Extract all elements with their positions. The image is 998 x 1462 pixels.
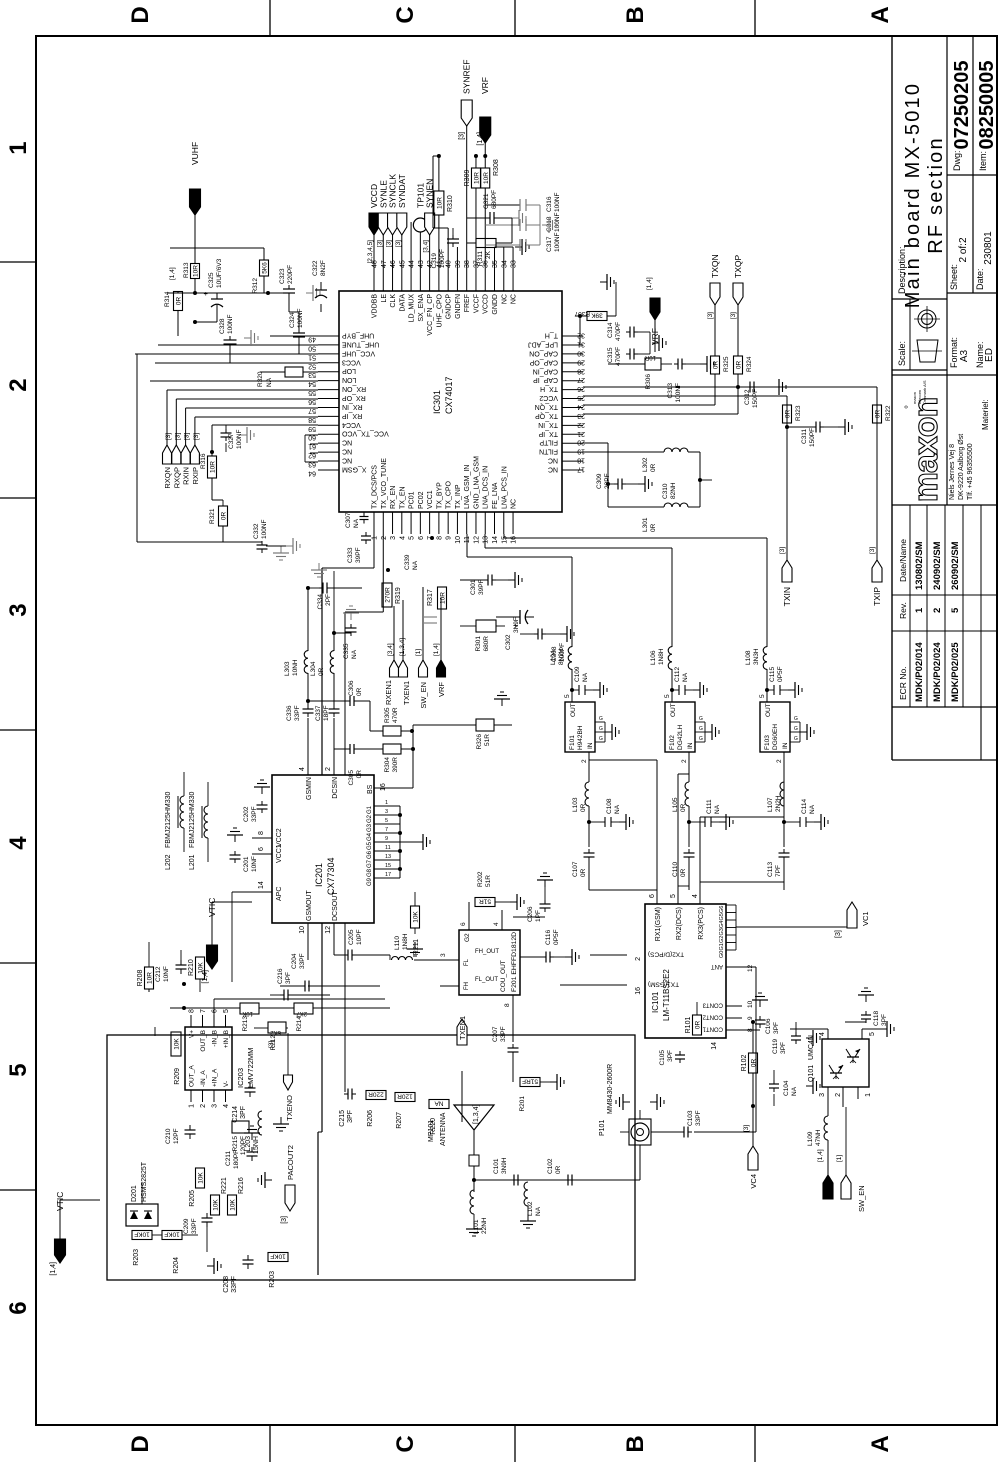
svg-text:CONT2: CONT2 bbox=[702, 1014, 723, 1020]
svg-text:F201 EHFFD1812D: F201 EHFFD1812D bbox=[511, 932, 518, 992]
svg-text:L108: L108 bbox=[745, 650, 752, 665]
svg-text:33: 33 bbox=[511, 260, 518, 268]
svg-text:FE_LNA: FE_LNA bbox=[492, 482, 499, 509]
svg-text:NA: NA bbox=[535, 1206, 542, 1216]
svg-text:C: C bbox=[392, 1435, 419, 1452]
svg-text:NA: NA bbox=[682, 672, 689, 682]
svg-text:TXIP: TXIP bbox=[872, 587, 882, 606]
svg-text:D201: D201 bbox=[131, 1185, 138, 1202]
svg-text:8N2H: 8N2H bbox=[558, 648, 565, 665]
svg-text:260902/SM: 260902/SM bbox=[950, 541, 961, 590]
svg-text:G: G bbox=[599, 716, 603, 722]
svg-text:CAP_IP: CAP_IP bbox=[533, 376, 558, 383]
svg-text:DG42LH: DG42LH bbox=[677, 724, 684, 750]
svg-text:[3,4]: [3,4] bbox=[387, 643, 394, 656]
svg-text:L303: L303 bbox=[284, 661, 291, 676]
svg-text:5: 5 bbox=[670, 894, 677, 898]
svg-text:3PF: 3PF bbox=[773, 1022, 780, 1034]
svg-text:CAP_ON: CAP_ON bbox=[529, 349, 558, 356]
svg-text:G6: G6 bbox=[719, 906, 725, 913]
svg-text:OUT: OUT bbox=[570, 703, 577, 717]
svg-text:NC: NC bbox=[511, 294, 518, 304]
svg-text:TX_INP: TX_INP bbox=[455, 484, 462, 509]
svg-text:D: D bbox=[127, 1435, 154, 1452]
svg-text:4: 4 bbox=[819, 1032, 826, 1036]
svg-text:G5: G5 bbox=[367, 841, 373, 850]
svg-text:C105: C105 bbox=[659, 1050, 666, 1066]
svg-text:VRF: VRF bbox=[437, 682, 446, 697]
svg-text:C112: C112 bbox=[674, 667, 681, 682]
svg-text:UMC4N: UMC4N bbox=[808, 1035, 815, 1060]
svg-text:[3]: [3] bbox=[193, 433, 200, 440]
svg-text:SYNREF: SYNREF bbox=[462, 60, 472, 94]
svg-text:[3]: [3] bbox=[268, 1041, 275, 1048]
svg-text:49: 49 bbox=[308, 336, 316, 343]
svg-text:6: 6 bbox=[418, 536, 425, 540]
svg-text:P101: P101 bbox=[599, 1120, 606, 1136]
svg-text:APC: APC bbox=[276, 887, 283, 901]
svg-text:+IN_B: +IN_B bbox=[223, 1030, 230, 1048]
svg-text:R326: R326 bbox=[476, 734, 483, 750]
svg-text:2: 2 bbox=[581, 759, 588, 763]
svg-text:UHF_BYP: UHF_BYP bbox=[342, 332, 375, 339]
svg-text:16: 16 bbox=[511, 536, 518, 544]
svg-text:CONT3: CONT3 bbox=[702, 1002, 723, 1008]
svg-text:MDK/P02/024: MDK/P02/024 bbox=[932, 642, 943, 702]
svg-text:51R: 51R bbox=[485, 875, 492, 887]
svg-text:0P5F: 0P5F bbox=[777, 666, 784, 682]
svg-text:3N9H: 3N9H bbox=[501, 1157, 508, 1174]
svg-text:20: 20 bbox=[577, 439, 585, 446]
svg-text:MM8430-2600R: MM8430-2600R bbox=[607, 1064, 614, 1114]
svg-text:L107: L107 bbox=[767, 797, 774, 812]
svg-text:LOP: LOP bbox=[342, 367, 356, 374]
svg-text:LNA_GSM_IN: LNA_GSM_IN bbox=[464, 465, 471, 509]
svg-text:GNDD: GNDD bbox=[492, 294, 499, 315]
svg-text:FREF: FREF bbox=[464, 294, 471, 312]
svg-text:VCC3: VCC3 bbox=[342, 358, 361, 365]
svg-text:C202: C202 bbox=[243, 806, 250, 822]
svg-text:G9: G9 bbox=[367, 877, 373, 886]
svg-text:6: 6 bbox=[258, 847, 265, 851]
svg-text:[3]: [3] bbox=[459, 132, 466, 140]
svg-text:GNDFN: GNDFN bbox=[455, 294, 462, 319]
svg-text:33PF: 33PF bbox=[500, 1026, 507, 1042]
svg-text:C339: C339 bbox=[404, 554, 411, 570]
svg-text:IC201: IC201 bbox=[314, 863, 324, 887]
svg-text:MDK/P02/014: MDK/P02/014 bbox=[914, 642, 925, 702]
svg-text:CLK: CLK bbox=[390, 294, 397, 308]
svg-text:OUT: OUT bbox=[670, 703, 677, 717]
svg-text:15: 15 bbox=[385, 863, 391, 869]
svg-text:C301: C301 bbox=[470, 579, 477, 595]
svg-text:2PF: 2PF bbox=[325, 594, 332, 606]
svg-text:0R: 0R bbox=[356, 687, 363, 696]
svg-text:[1,4]: [1,4] bbox=[477, 132, 484, 146]
svg-text:G0: G0 bbox=[719, 951, 725, 958]
svg-text:0R: 0R bbox=[221, 512, 228, 521]
svg-text:[3]: [3] bbox=[707, 312, 714, 319]
svg-text:Q101: Q101 bbox=[808, 1065, 815, 1082]
svg-text:33PF: 33PF bbox=[299, 953, 306, 969]
svg-text:11: 11 bbox=[385, 845, 391, 851]
svg-text:TX_EN: TX_EN bbox=[399, 486, 406, 509]
svg-text:180PF: 180PF bbox=[233, 1150, 240, 1169]
svg-text:L104: L104 bbox=[550, 650, 557, 665]
svg-text:8: 8 bbox=[436, 536, 443, 540]
svg-text:[3]: [3] bbox=[165, 433, 172, 440]
svg-text:C325: C325 bbox=[208, 272, 215, 288]
svg-text:RX_OP: RX_OP bbox=[342, 394, 366, 401]
svg-text:5K6: 5K6 bbox=[262, 262, 269, 274]
svg-text:TX_BYP: TX_BYP bbox=[436, 482, 443, 509]
svg-text:[3]: [3] bbox=[779, 547, 786, 554]
svg-text:C111: C111 bbox=[706, 799, 713, 814]
svg-text:0R: 0R bbox=[318, 667, 325, 676]
svg-text:10K: 10K bbox=[242, 1010, 253, 1016]
svg-text:2: 2 bbox=[835, 1093, 842, 1097]
svg-text:12: 12 bbox=[747, 964, 754, 972]
svg-text:100NF: 100NF bbox=[236, 429, 243, 449]
svg-text:1: 1 bbox=[385, 800, 388, 806]
svg-text:120R: 120R bbox=[397, 1093, 413, 1100]
svg-text:R304: R304 bbox=[384, 757, 391, 773]
svg-text:RXEN1: RXEN1 bbox=[384, 680, 393, 705]
svg-text:TX_IP: TX_IP bbox=[538, 430, 558, 437]
svg-text:COU_OUT: COU_OUT bbox=[500, 960, 507, 992]
svg-text:G: G bbox=[699, 736, 703, 742]
svg-text:L304: L304 bbox=[310, 661, 317, 676]
svg-text:[1]: [1] bbox=[836, 1155, 843, 1162]
svg-text:Scale:: Scale: bbox=[897, 341, 907, 366]
svg-text:39PF: 39PF bbox=[478, 579, 485, 595]
svg-text:C305: C305 bbox=[348, 770, 355, 786]
svg-text:2: 2 bbox=[200, 1104, 207, 1108]
svg-text:maxon: maxon bbox=[907, 398, 945, 503]
svg-text:C314: C314 bbox=[607, 322, 614, 338]
svg-text:3PF: 3PF bbox=[667, 1050, 674, 1062]
svg-text:C204: C204 bbox=[291, 953, 298, 969]
svg-text:0R: 0R bbox=[580, 868, 587, 877]
svg-text:4: 4 bbox=[493, 922, 500, 926]
svg-text:G8: G8 bbox=[367, 868, 373, 877]
svg-text:40: 40 bbox=[446, 260, 453, 268]
svg-text:C116: C116 bbox=[545, 930, 552, 945]
svg-text:5: 5 bbox=[869, 1032, 876, 1036]
svg-text:[3]: [3] bbox=[376, 240, 383, 247]
svg-text:5: 5 bbox=[759, 694, 766, 698]
svg-text:C210: C210 bbox=[165, 1128, 172, 1144]
svg-text:680R: 680R bbox=[483, 636, 490, 652]
svg-text:SYNDAT: SYNDAT bbox=[397, 174, 407, 208]
svg-text:390R: 390R bbox=[392, 757, 399, 773]
svg-text:100PF: 100PF bbox=[439, 249, 446, 268]
svg-text:220R: 220R bbox=[368, 1091, 384, 1098]
svg-text:R319: R319 bbox=[395, 587, 402, 604]
svg-text:Materiel:: Materiel: bbox=[981, 399, 990, 430]
svg-text:UHF_CPO: UHF_CPO bbox=[436, 293, 443, 327]
svg-text:39: 39 bbox=[455, 260, 462, 268]
svg-text:7: 7 bbox=[200, 1009, 207, 1013]
svg-text:C104: C104 bbox=[783, 1080, 790, 1096]
svg-text:2: 2 bbox=[681, 759, 688, 763]
svg-text:C324: C324 bbox=[289, 312, 296, 328]
svg-text:ANT: ANT bbox=[711, 963, 723, 969]
svg-text:0R: 0R bbox=[680, 803, 687, 812]
svg-text:R205: R205 bbox=[189, 1190, 196, 1207]
svg-text:6: 6 bbox=[460, 922, 467, 926]
svg-text:-IN_B: -IN_B bbox=[212, 1030, 219, 1047]
svg-text:RXQN: RXQN bbox=[163, 467, 172, 489]
svg-text:12: 12 bbox=[325, 926, 332, 934]
svg-text:1: 1 bbox=[5, 141, 32, 154]
svg-text:680PF: 680PF bbox=[491, 190, 498, 209]
svg-text:12: 12 bbox=[473, 536, 480, 544]
svg-text:34: 34 bbox=[501, 260, 508, 268]
svg-text:38: 38 bbox=[464, 260, 471, 268]
svg-text:10K: 10K bbox=[230, 1199, 237, 1211]
svg-text:G3: G3 bbox=[719, 928, 725, 935]
svg-text:LPF_ADJ: LPF_ADJ bbox=[528, 340, 558, 347]
svg-text:R102: R102 bbox=[741, 1055, 748, 1072]
svg-text:[3]: [3] bbox=[386, 240, 393, 247]
svg-text:C334: C334 bbox=[317, 594, 324, 610]
svg-text:Format:: Format: bbox=[949, 337, 959, 368]
svg-text:TX_QP: TX_QP bbox=[535, 412, 558, 419]
svg-text:0R: 0R bbox=[736, 361, 743, 370]
svg-text:[3]: [3] bbox=[281, 1216, 288, 1224]
svg-text:C302: C302 bbox=[505, 634, 512, 650]
svg-text:TXEN1: TXEN1 bbox=[458, 1016, 467, 1040]
svg-text:C332: C332 bbox=[253, 523, 260, 539]
svg-text:30: 30 bbox=[577, 349, 585, 356]
svg-text:6K2: 6K2 bbox=[270, 1029, 281, 1035]
svg-text:[3]: [3] bbox=[184, 433, 191, 440]
svg-text:TXQN: TXQN bbox=[710, 254, 720, 278]
svg-text:IN: IN bbox=[687, 742, 694, 749]
svg-text:G2: G2 bbox=[464, 933, 471, 942]
svg-text:0R: 0R bbox=[356, 770, 363, 779]
svg-text:DK-9220 Aalborg Øst: DK-9220 Aalborg Øst bbox=[958, 434, 965, 500]
svg-text:[1,4]: [1,4] bbox=[50, 1262, 57, 1276]
svg-text:VCC_FN_CP: VCC_FN_CP bbox=[427, 294, 434, 336]
svg-text:10NF: 10NF bbox=[163, 966, 170, 982]
svg-text:3PF: 3PF bbox=[780, 1042, 787, 1054]
svg-text:NC: NC bbox=[501, 294, 508, 304]
svg-text:TX_DCS/PCS: TX_DCS/PCS bbox=[372, 465, 379, 509]
svg-text:C206: C206 bbox=[527, 906, 534, 922]
svg-text:L106: L106 bbox=[650, 650, 657, 665]
svg-text:Rev.: Rev. bbox=[898, 602, 908, 619]
svg-text:12PF: 12PF bbox=[173, 1128, 180, 1144]
svg-text:DG60EH: DG60EH bbox=[772, 724, 779, 750]
svg-text:23: 23 bbox=[577, 412, 585, 419]
svg-text:DCSIN: DCSIN bbox=[332, 777, 339, 799]
svg-text:19: 19 bbox=[577, 448, 585, 455]
svg-text:C215: C215 bbox=[339, 1110, 346, 1127]
svg-text:150PF: 150PF bbox=[752, 389, 759, 408]
svg-text:R209: R209 bbox=[174, 1068, 181, 1085]
svg-text:V-: V- bbox=[223, 1081, 230, 1087]
svg-text:100NF: 100NF bbox=[261, 519, 268, 539]
svg-text:10KF: 10KF bbox=[164, 1231, 180, 1238]
svg-text:4: 4 bbox=[5, 836, 32, 850]
svg-text:R203: R203 bbox=[133, 1249, 140, 1266]
svg-text:31: 31 bbox=[577, 340, 585, 347]
svg-text:MDK/P02/025: MDK/P02/025 bbox=[950, 642, 961, 702]
svg-text:10R: 10R bbox=[193, 265, 200, 277]
svg-text:G: G bbox=[599, 736, 603, 742]
svg-text:TXENO: TXENO bbox=[285, 1095, 294, 1121]
svg-text:R313: R313 bbox=[183, 262, 190, 278]
svg-text:RX_IN: RX_IN bbox=[342, 403, 363, 410]
svg-text:NA: NA bbox=[582, 672, 589, 682]
svg-text:R221: R221 bbox=[221, 1177, 228, 1194]
svg-text:R202: R202 bbox=[477, 871, 484, 887]
svg-text:NA: NA bbox=[791, 1086, 798, 1096]
svg-text:C113: C113 bbox=[767, 862, 774, 877]
svg-text:5: 5 bbox=[664, 694, 671, 698]
svg-text:64: 64 bbox=[308, 469, 316, 476]
svg-text:C306: C306 bbox=[348, 680, 355, 696]
svg-text:26: 26 bbox=[577, 385, 585, 392]
svg-text:21: 21 bbox=[577, 430, 585, 437]
svg-text:25: 25 bbox=[577, 394, 585, 401]
svg-text:10R: 10R bbox=[147, 972, 154, 984]
svg-text:7PF: 7PF bbox=[775, 865, 782, 877]
svg-text:22PF: 22PF bbox=[604, 473, 611, 489]
svg-text:2: 2 bbox=[776, 759, 783, 763]
svg-text:G4: G4 bbox=[367, 832, 373, 841]
svg-text:1: 1 bbox=[372, 536, 379, 540]
svg-text:CX77304: CX77304 bbox=[326, 857, 336, 895]
svg-text:TXQP: TXQP bbox=[733, 255, 743, 278]
svg-text:44: 44 bbox=[409, 260, 416, 268]
svg-text:[1,3,4]: [1,3,4] bbox=[473, 1104, 480, 1124]
svg-text:17: 17 bbox=[385, 872, 391, 878]
svg-text:100NF: 100NF bbox=[554, 212, 561, 232]
svg-text:OUT: OUT bbox=[765, 703, 772, 717]
svg-text:F103: F103 bbox=[764, 735, 771, 750]
svg-text:R310: R310 bbox=[447, 195, 454, 212]
svg-text:RX_IP: RX_IP bbox=[342, 412, 363, 419]
svg-text:10R: 10R bbox=[644, 354, 656, 360]
svg-text:G: G bbox=[599, 726, 603, 732]
svg-text:2 of:2: 2 of:2 bbox=[958, 237, 969, 262]
svg-text:10R: 10R bbox=[436, 197, 443, 209]
svg-text:Main board MX-5010: Main board MX-5010 bbox=[902, 82, 924, 308]
svg-text:C108: C108 bbox=[606, 798, 613, 814]
svg-text:10R: 10R bbox=[474, 172, 481, 184]
svg-text:45: 45 bbox=[399, 260, 406, 268]
svg-text:5: 5 bbox=[223, 1009, 230, 1013]
svg-text:1N8H: 1N8H bbox=[402, 933, 409, 950]
svg-text:100NF: 100NF bbox=[554, 192, 561, 212]
svg-text:Date/Name: Date/Name bbox=[898, 539, 908, 582]
svg-text:18PF: 18PF bbox=[323, 705, 330, 721]
svg-text:VCC2: VCC2 bbox=[539, 394, 558, 401]
svg-text:10UF/6V3: 10UF/6V3 bbox=[216, 258, 223, 288]
svg-text:C106: C106 bbox=[765, 1018, 772, 1034]
svg-text:L202: L202 bbox=[165, 854, 172, 870]
svg-text:R306: R306 bbox=[645, 374, 652, 390]
svg-text:NA: NA bbox=[714, 804, 721, 814]
svg-text:ED: ED bbox=[984, 348, 995, 362]
svg-text:R215: R215 bbox=[232, 1136, 239, 1152]
svg-text:[1]: [1] bbox=[415, 649, 422, 656]
svg-text:16: 16 bbox=[635, 987, 642, 995]
svg-text:0R: 0R bbox=[695, 1021, 702, 1030]
svg-text:0R: 0R bbox=[555, 1165, 562, 1174]
svg-text:FILTN: FILTN bbox=[539, 448, 558, 455]
svg-text:X_GSM: X_GSM bbox=[342, 465, 367, 472]
svg-text:RX1(GSM): RX1(GSM) bbox=[655, 907, 662, 941]
svg-text:R213: R213 bbox=[242, 1016, 249, 1032]
svg-text:C311: C311 bbox=[801, 429, 808, 444]
svg-text:2: 2 bbox=[381, 536, 388, 540]
svg-text:08250005: 08250005 bbox=[976, 61, 998, 150]
svg-text:6: 6 bbox=[212, 1009, 219, 1013]
svg-text:C205: C205 bbox=[348, 929, 355, 945]
svg-text:C333: C333 bbox=[347, 547, 354, 563]
svg-text:C317: C317 bbox=[546, 236, 553, 252]
svg-text:8: 8 bbox=[504, 1003, 511, 1007]
svg-text:C103: C103 bbox=[687, 1110, 694, 1126]
svg-text:NA: NA bbox=[353, 518, 360, 528]
svg-text:3N3H: 3N3H bbox=[753, 648, 760, 665]
svg-text:Sheet:: Sheet: bbox=[949, 264, 959, 290]
svg-text:NA: NA bbox=[266, 377, 273, 387]
svg-text:18: 18 bbox=[577, 457, 585, 464]
svg-text:TX_VCO_TUNE: TX_VCO_TUNE bbox=[381, 458, 388, 509]
svg-text:10KF: 10KF bbox=[134, 1231, 150, 1238]
svg-text:TX_IN: TX_IN bbox=[538, 421, 558, 428]
svg-text:NC: NC bbox=[342, 457, 352, 464]
svg-text:R201: R201 bbox=[519, 1096, 526, 1112]
svg-text:R101: R101 bbox=[685, 1017, 692, 1034]
svg-text:FBMJ2125HM330: FBMJ2125HM330 bbox=[165, 791, 172, 848]
svg-text:5: 5 bbox=[564, 694, 571, 698]
svg-text:C: C bbox=[392, 6, 419, 23]
svg-text:470R: 470R bbox=[392, 707, 399, 723]
svg-text:0P5F: 0P5F bbox=[553, 929, 560, 945]
svg-text:33PF: 33PF bbox=[231, 1276, 238, 1293]
svg-text:10K: 10K bbox=[174, 1038, 181, 1050]
svg-text:R203: R203 bbox=[269, 1271, 276, 1288]
svg-text:H942BH: H942BH bbox=[577, 725, 584, 750]
svg-text:C109: C109 bbox=[574, 666, 581, 682]
svg-text:3: 3 bbox=[5, 603, 32, 616]
svg-text:17: 17 bbox=[577, 466, 585, 473]
svg-text:10KF: 10KF bbox=[270, 1253, 286, 1260]
svg-text:32: 32 bbox=[577, 332, 585, 339]
svg-text:°: ° bbox=[904, 405, 915, 409]
svg-text:TXEN1: TXEN1 bbox=[402, 681, 411, 705]
svg-text:FILTP: FILTP bbox=[539, 439, 558, 446]
svg-text:VCCF: VCCF bbox=[473, 294, 480, 313]
svg-text:GNDCP: GNDCP bbox=[446, 294, 453, 320]
svg-text:G3: G3 bbox=[367, 823, 373, 832]
svg-text:9: 9 bbox=[747, 1016, 754, 1020]
svg-text:1: 1 bbox=[865, 1093, 872, 1097]
svg-text:NC: NC bbox=[342, 448, 352, 455]
svg-text:7: 7 bbox=[385, 827, 388, 833]
svg-text:2: 2 bbox=[5, 378, 32, 391]
svg-text:TX_QN: TX_QN bbox=[535, 403, 558, 410]
svg-text:22: 22 bbox=[577, 421, 585, 428]
svg-text:59: 59 bbox=[308, 425, 316, 432]
svg-text:C216: C216 bbox=[277, 968, 284, 984]
